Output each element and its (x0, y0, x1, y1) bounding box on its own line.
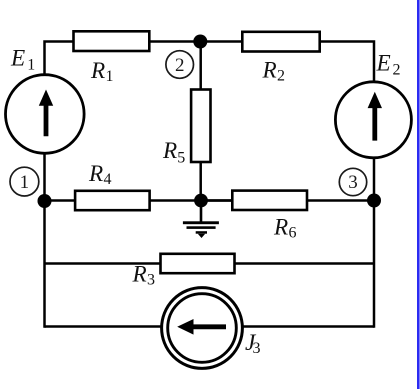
current source J3 outer circle (162, 288, 243, 369)
wire E2 to node 3 (373, 158, 376, 201)
label R3 (132, 262, 156, 289)
voltage source E1 (6, 75, 85, 154)
label E2 (376, 51, 401, 79)
node label 3 (339, 168, 366, 195)
resistor R1 (74, 31, 150, 51)
svg-text:R: R (132, 262, 147, 288)
junction node 3 (367, 194, 381, 208)
svg-text:2: 2 (175, 55, 185, 76)
svg-text:6: 6 (289, 225, 297, 242)
svg-text:R: R (273, 215, 288, 241)
resistor R6 (232, 191, 307, 210)
svg-text:4: 4 (104, 171, 112, 188)
svg-text:3: 3 (147, 272, 155, 289)
wire R5 to center junction (199, 162, 202, 201)
svg-text:1: 1 (20, 172, 30, 193)
label R6 (273, 215, 297, 242)
node label 2 (166, 51, 194, 79)
resistor R2 (242, 32, 319, 52)
resistor R3 (161, 254, 235, 273)
wire bottom-left to J3 (45, 325, 163, 328)
svg-text:R: R (262, 58, 277, 84)
junction node 1 (38, 194, 52, 208)
label R2 (262, 58, 286, 85)
svg-text:R: R (162, 138, 177, 164)
svg-text:3: 3 (348, 172, 358, 193)
svg-text:1: 1 (27, 57, 35, 74)
svg-text:R: R (90, 58, 105, 84)
label R4 (88, 161, 112, 188)
resistor R4 (75, 191, 150, 210)
wire center junction to R6 (201, 199, 232, 202)
E1 arrow (39, 90, 53, 137)
svg-text:2: 2 (393, 62, 401, 79)
label E1 (10, 46, 35, 74)
svg-text:2: 2 (277, 68, 285, 85)
wire R6 to node 3 (307, 199, 374, 202)
svg-text:3: 3 (253, 340, 261, 357)
svg-text:E: E (376, 51, 391, 77)
J3 arrow (177, 319, 226, 335)
svg-text:E: E (10, 46, 25, 72)
wire node 2 to R5 (199, 42, 202, 90)
node label 1 (10, 167, 39, 196)
svg-text:5: 5 (177, 150, 185, 167)
current source J3 inner circle (168, 294, 237, 363)
svg-text:1: 1 (106, 68, 114, 85)
resistor R5 (191, 90, 210, 163)
wire node 3 down right side (373, 201, 376, 328)
wire node 2 to R2 (201, 40, 243, 43)
label J3 (245, 330, 261, 357)
wire left to R3 (45, 262, 161, 265)
svg-text:R: R (88, 161, 103, 187)
wire node 1 down left side (43, 201, 46, 328)
blue page border line (417, 0, 420, 389)
E2 arrow (368, 92, 382, 141)
voltage source E2 (335, 82, 411, 158)
label R1 (90, 58, 114, 85)
junction center (ground node) (194, 194, 208, 208)
wire J3 to bottom-right (242, 325, 374, 328)
junction node 2 (193, 35, 207, 49)
wire R2 to top-right corner (320, 40, 374, 82)
wire R1 to node 2 (149, 40, 200, 43)
label R5 (162, 138, 185, 167)
wire E1 to node 1 (43, 152, 46, 201)
ground symbol (183, 201, 219, 239)
wire R3 to right side (234, 262, 374, 265)
wire node 1 to R4 (45, 199, 75, 202)
wire top-left corner to R1 (45, 40, 75, 76)
wire R4 to center junction (150, 199, 231, 202)
